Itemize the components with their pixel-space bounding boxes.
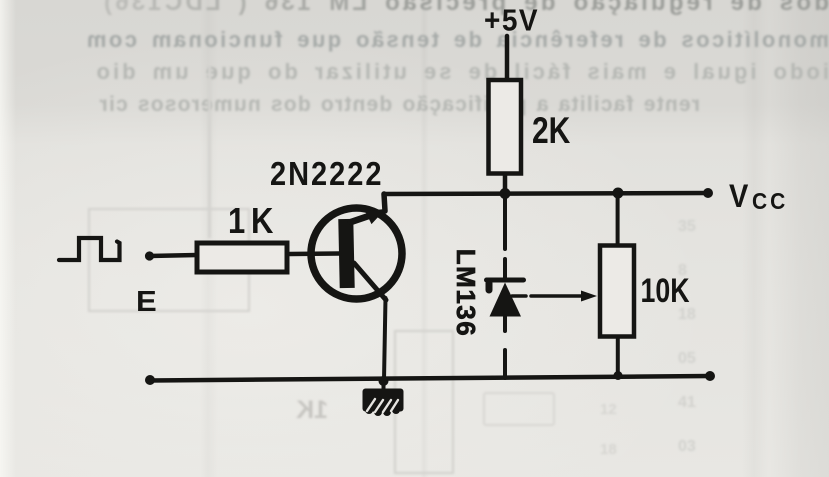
transistor collector arrowhead [365,209,386,224]
svg-text:2K: 2K [532,111,570,151]
ground symbol [363,389,404,417]
svg-text:10K: 10K [641,271,690,309]
zener cathode left hook [486,283,493,290]
node: emitter/ground junction [379,376,389,386]
wire: +5V to 2K resistor [505,36,510,79]
svg-text:E: E [136,286,157,318]
wire: 1K to transistor base [290,251,339,256]
resistor 1K [197,243,287,272]
zener diode LM136 cathode bar [487,278,524,283]
wire: input to 1K [149,255,197,256]
wire: Vcc rail to LM136 cathode (with scan breaks) [503,195,507,249]
wire: Vcc rail [384,193,709,194]
transistor collector lead to rail corner [384,194,385,211]
svg-text:V: V [729,177,749,214]
transistor emitter lead [354,263,386,300]
wire: 10K bottom to rail [616,339,620,376]
wire: LM136 anode to bottom rail (with scan breaks) [503,316,507,331]
svg-text:+5V: +5V [484,5,539,38]
transistor base bar [338,219,354,288]
node: bottom rail left terminal [145,375,155,385]
ground hatch white slashes [367,399,398,412]
transistor collector lead shaft [351,214,376,223]
wire: Vcc rail to 10K top [616,193,620,244]
wire: ground stub [382,381,386,391]
arrowhead at 10K [581,291,597,302]
node: rail junction at 2K [500,188,511,199]
zener diode LM136 anode triangle [490,283,522,317]
input pulse symbol [59,238,120,260]
potentiometer 10K [600,246,634,337]
wire: emitter to ground rail [384,298,386,380]
svg-text:2N2222: 2N2222 [270,155,384,192]
svg-text:1: 1 [228,201,245,242]
wire: 2K to Vcc rail [503,175,508,193]
svg-text:K: K [251,201,274,242]
node: 10K bottom junction [614,371,623,380]
node: Vcc terminal dot [703,188,713,198]
node: input terminal dot E [145,251,154,260]
node: bottom rail right terminal [705,371,715,381]
transistor Q1 2N2222 body circle [311,208,402,299]
wire: bottom rail [149,376,710,381]
ghost figure fragments [88,208,250,312]
resistor 2K [489,80,522,174]
wire: LM136 wiper arrow line to 10K [512,294,526,298]
node: rail junction at 10K [613,188,624,199]
svg-text:LM136: LM136 [451,249,481,337]
ghost bleed-through text lines (mirrored print from reverse page) [0,0,829,17]
svg-text:CC: CC [752,188,788,214]
